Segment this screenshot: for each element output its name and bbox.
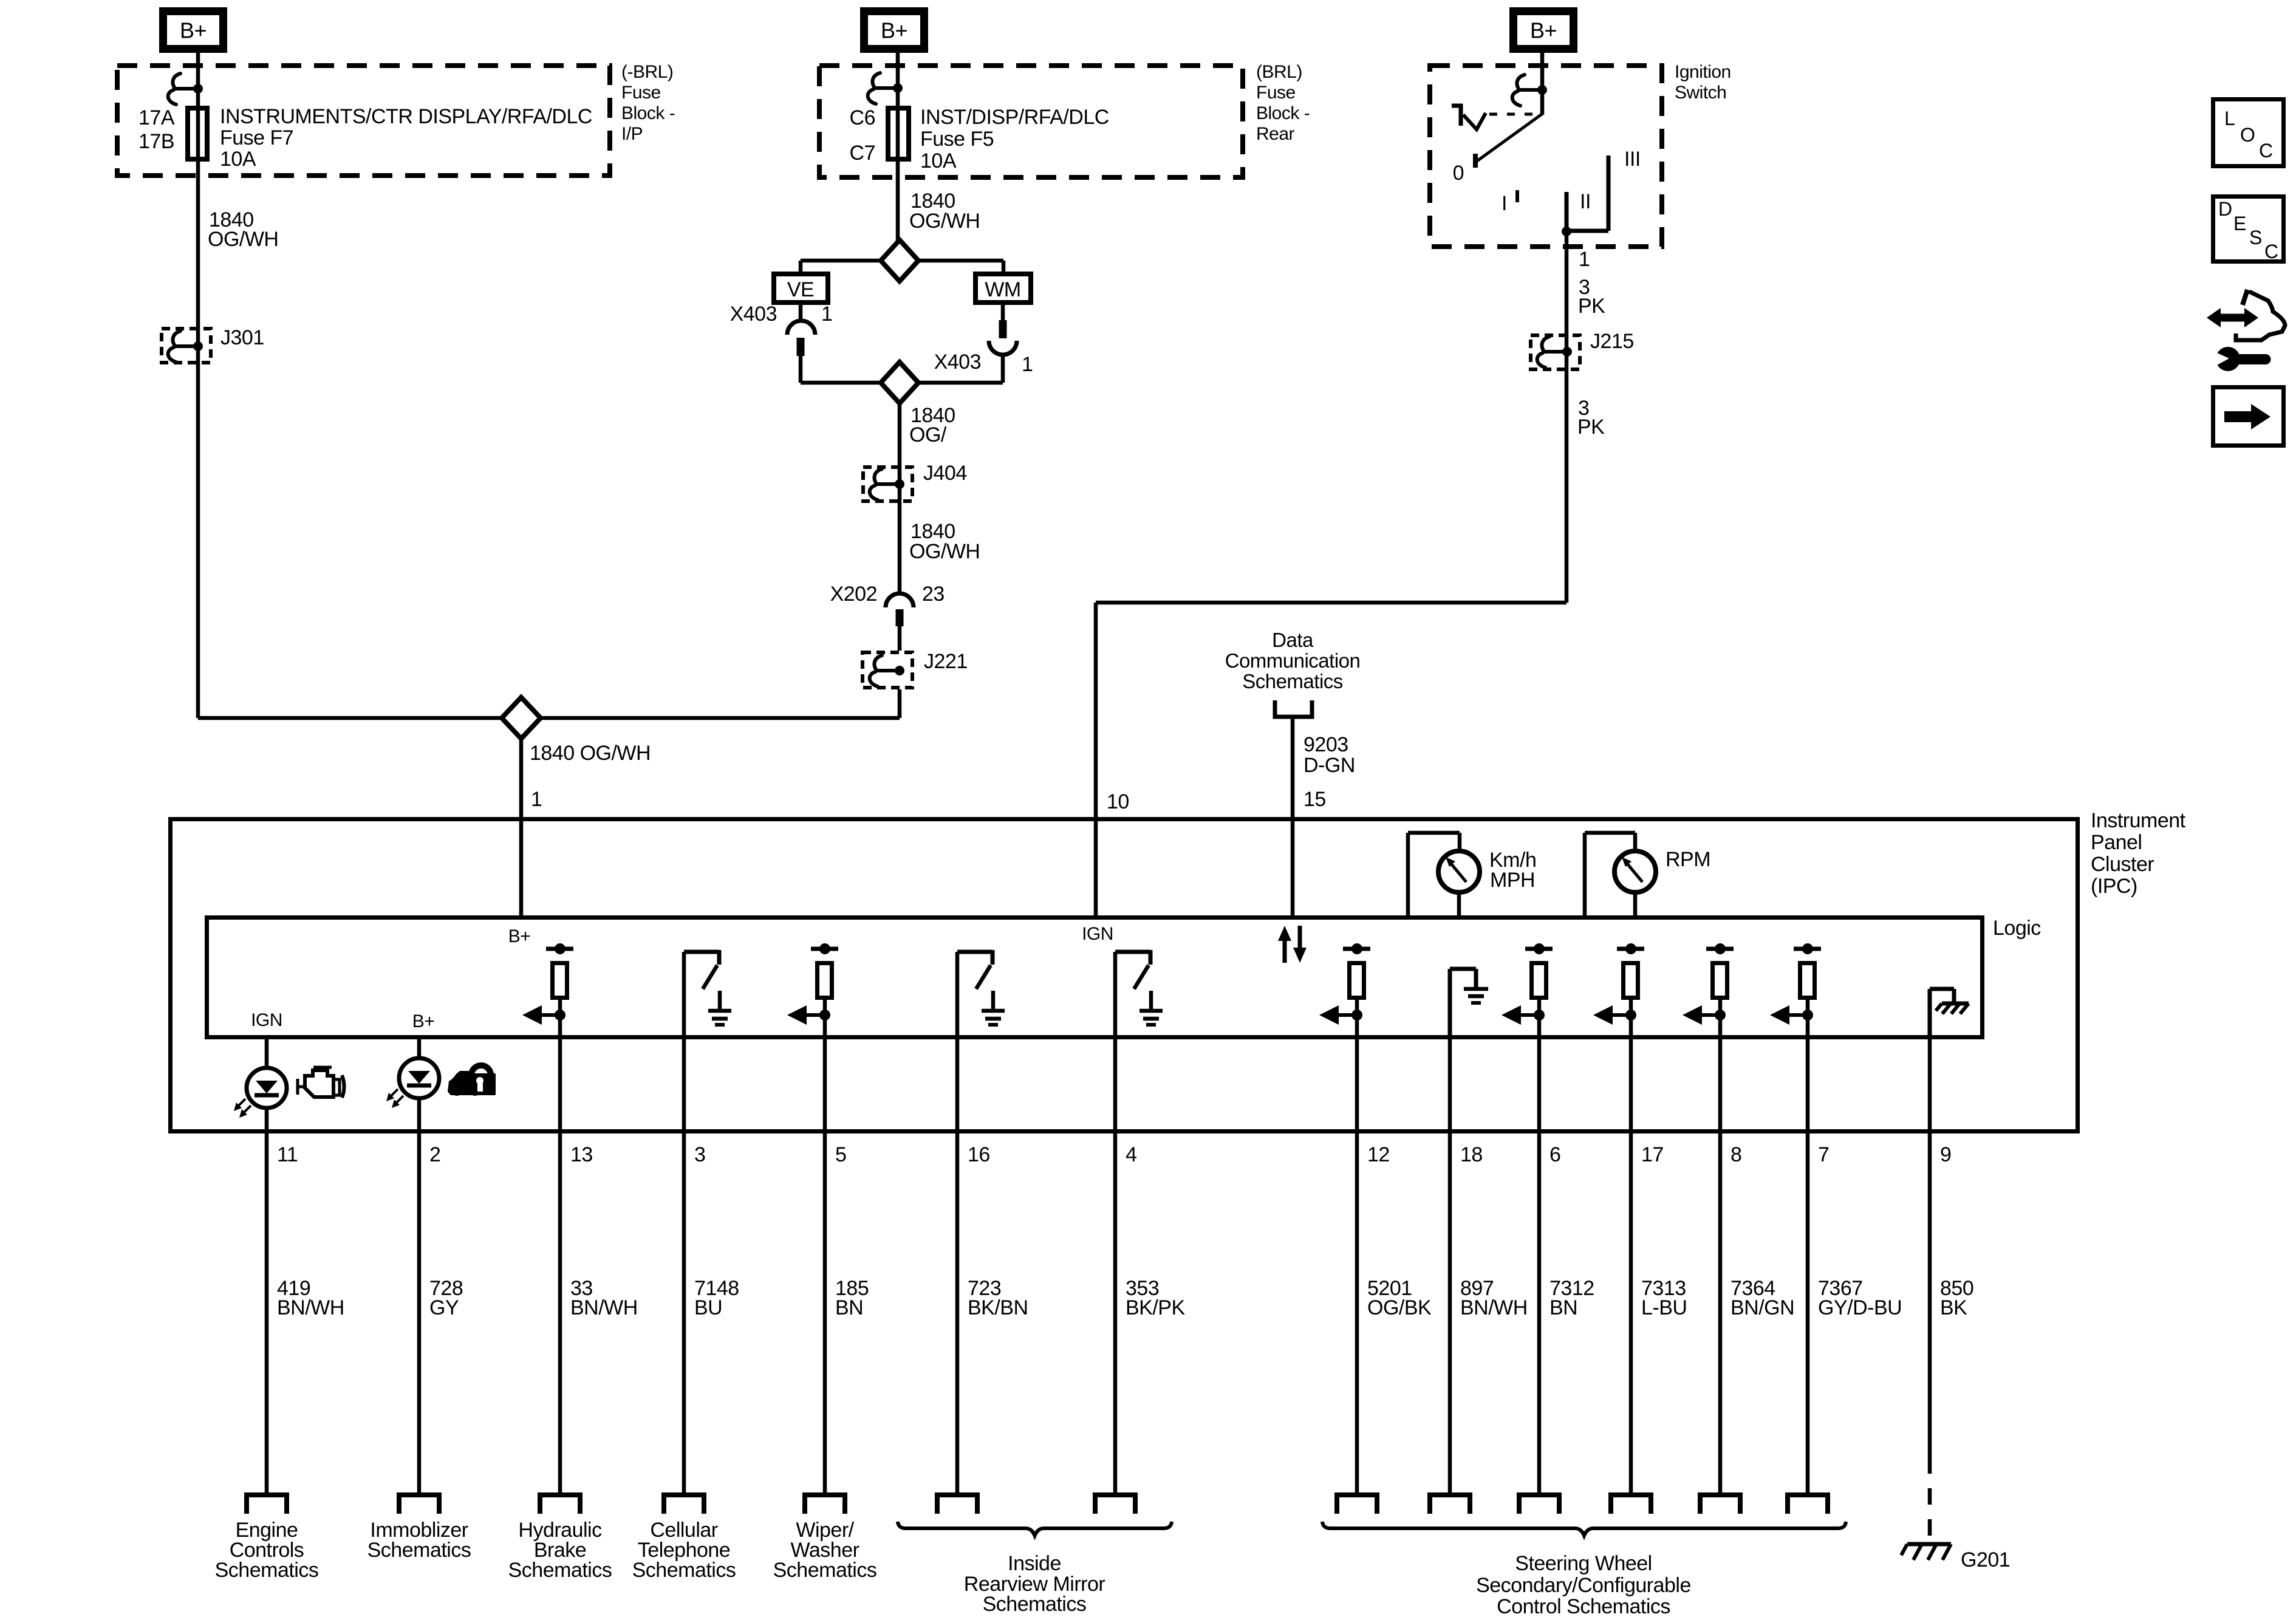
svg-text:(IPC): (IPC) — [2091, 875, 2137, 898]
svg-text:Instrument: Instrument — [2091, 809, 2186, 832]
off-page bracket data comm — [1275, 700, 1312, 717]
svg-text:15: 15 — [1303, 788, 1326, 811]
wire X202 to J221 — [898, 626, 902, 651]
splice diamond main — [502, 697, 541, 739]
ignition switch name — [1675, 62, 1731, 103]
wire label 7367 GY/D-BU — [1818, 1277, 1902, 1319]
brace inside rearview mirror group — [898, 1522, 1172, 1536]
pin 15 label — [1303, 788, 1326, 811]
svg-text:BK/BN: BK/BN — [968, 1296, 1028, 1319]
off-page connector pin 11 — [247, 1495, 287, 1514]
IPC name — [2091, 809, 2186, 898]
pin 13 label — [570, 1143, 593, 1166]
pin 1 label at WM — [1022, 353, 1033, 376]
brace steering wheel group — [1322, 1522, 1846, 1536]
off-page connector pin 2 — [399, 1495, 439, 1514]
svg-text:Fuse: Fuse — [1256, 83, 1296, 103]
wire label 1840 OG/WH — [208, 208, 278, 251]
wire label 33 BN/WH — [570, 1277, 638, 1319]
speedometer gauge Km/h MPH — [1408, 833, 1536, 915]
wire diamond to X202 — [898, 403, 902, 593]
ignition key symbol — [1452, 104, 1537, 129]
svg-text:17B: 17B — [138, 130, 174, 153]
label X403 right — [934, 350, 981, 374]
label X202 — [830, 583, 877, 606]
svg-text:BK: BK — [1940, 1296, 1967, 1319]
off-page connector pin 12 — [1337, 1495, 1377, 1514]
connector X202 — [886, 593, 914, 626]
svg-text:23: 23 — [922, 583, 945, 606]
connector symbol in fuse block I/P — [168, 73, 203, 104]
pin 3 label — [694, 1143, 705, 1166]
pin 7 label — [1818, 1143, 1829, 1166]
wire ignition to J215 — [1565, 233, 1569, 603]
svg-text:(-BRL): (-BRL) — [621, 62, 673, 82]
label Engine Controls Schematics — [215, 1519, 319, 1582]
svg-text:9: 9 — [1940, 1143, 1951, 1166]
splice J215 — [1531, 330, 1634, 369]
svg-text:16: 16 — [968, 1143, 990, 1166]
svg-text:OG/WH: OG/WH — [909, 540, 980, 563]
chassis ground hook pin 9 — [1930, 989, 1969, 1457]
pin 1 label ignition — [1579, 248, 1590, 271]
wire label 7364 BN/GN — [1731, 1277, 1794, 1319]
svg-text:PK: PK — [1577, 415, 1605, 439]
svg-text:13: 13 — [570, 1143, 593, 1166]
svg-text:Switch: Switch — [1675, 83, 1726, 103]
svg-text:D: D — [2218, 198, 2232, 220]
pin label C7 — [850, 142, 875, 165]
position 0 label — [1453, 162, 1464, 185]
position I terminal — [1502, 190, 1517, 215]
wire label 419 BN/WH — [277, 1277, 344, 1319]
svg-text:MPH: MPH — [1490, 869, 1535, 892]
off-page connector pin 13 — [540, 1495, 580, 1514]
svg-text:3: 3 — [694, 1143, 705, 1166]
svg-text:Block -: Block - — [621, 103, 675, 123]
wire label 723 BK/BN — [968, 1277, 1028, 1319]
icon vehicle with arrow — [2207, 290, 2285, 340]
resistor branch pin 5 — [787, 943, 838, 1495]
fuse F5 label — [920, 106, 1109, 173]
svg-text:BN/WH: BN/WH — [570, 1296, 638, 1319]
svg-text:2: 2 — [429, 1143, 440, 1166]
wire ignition to IPC pin 10 — [1096, 603, 1567, 916]
wire label 7312 BN — [1549, 1277, 1594, 1319]
resistor branch pin 6 — [1502, 943, 1553, 1495]
off-page connector pin 18 — [1430, 1495, 1470, 1514]
off-page label Data Communication Schematics — [1225, 629, 1361, 692]
svg-text:1: 1 — [531, 788, 542, 811]
svg-text:Cluster: Cluster — [2091, 853, 2154, 876]
svg-text:1: 1 — [1022, 353, 1033, 376]
IPC outer box — [171, 819, 2078, 1132]
svg-text:10A: 10A — [920, 149, 957, 173]
pin label C6 — [850, 106, 875, 129]
resistor branch pin 7 — [1770, 943, 1821, 1495]
wire B+ to fuse block I/P — [196, 53, 200, 106]
svg-text:Data: Data — [1272, 629, 1314, 651]
svg-text:Rear: Rear — [1256, 124, 1295, 144]
svg-text:1: 1 — [821, 303, 832, 326]
svg-text:J301: J301 — [220, 326, 264, 349]
wire B+ to fuse block rear — [896, 51, 900, 106]
off-page connector pin 4 — [1095, 1495, 1135, 1514]
svg-text:C: C — [2264, 241, 2278, 262]
splice diamond lower — [881, 362, 918, 403]
svg-text:BN/WH: BN/WH — [1460, 1296, 1528, 1319]
svg-text:(BRL): (BRL) — [1256, 62, 1302, 82]
svg-text:J221: J221 — [924, 650, 968, 673]
wire J221 to splice diamond main — [541, 689, 900, 718]
svg-text:1: 1 — [1579, 248, 1590, 271]
svg-text:11: 11 — [277, 1143, 298, 1166]
svg-text:7: 7 — [1818, 1143, 1829, 1166]
svg-text:INST/DISP/RFA/DLC: INST/DISP/RFA/DLC — [920, 106, 1109, 129]
svg-text:4: 4 — [1126, 1143, 1136, 1166]
svg-text:J404: J404 — [923, 462, 967, 485]
svg-text:6: 6 — [1549, 1143, 1560, 1166]
svg-text:D-GN: D-GN — [1303, 754, 1355, 777]
wire label 3 PK upper — [1578, 276, 1605, 318]
wire fuse F5 to splice diamond — [896, 162, 900, 241]
ground hook pin 18 — [1450, 969, 1488, 1495]
position III terminal — [1567, 148, 1641, 231]
node II junction — [1562, 227, 1571, 236]
svg-text:B+: B+ — [1530, 18, 1557, 43]
svg-text:Schematics: Schematics — [508, 1559, 612, 1582]
icon box DESC — [2213, 197, 2284, 263]
off-page connector pin 6 — [1519, 1495, 1559, 1514]
svg-text:Inside: Inside — [1008, 1552, 1061, 1575]
connector symbol in fuse block rear — [868, 73, 903, 104]
splice J221 — [863, 650, 968, 688]
pin 12 label — [1367, 1143, 1390, 1166]
svg-text:Control Schematics: Control Schematics — [1497, 1595, 1670, 1617]
svg-text:0: 0 — [1453, 162, 1464, 185]
svg-text:Schematics: Schematics — [215, 1559, 319, 1582]
svg-text:1840 OG/WH: 1840 OG/WH — [530, 742, 651, 765]
connector VE box — [774, 274, 828, 303]
logic label — [1993, 917, 2041, 940]
svg-text:Ignition: Ignition — [1675, 62, 1731, 82]
wire B+ to ignition switch — [1540, 53, 1545, 114]
wire label 897 BN/WH — [1460, 1277, 1528, 1319]
label Immoblizer Schematics — [367, 1519, 471, 1562]
ignition switch blade — [1475, 113, 1543, 168]
icon wrench — [2212, 347, 2271, 371]
wire diamond to IPC pin 1 — [519, 739, 524, 916]
power symbol B+ (left feed) — [163, 12, 224, 49]
wire diamond to WM — [918, 261, 1003, 273]
svg-text:GY/D-BU: GY/D-BU — [1818, 1296, 1902, 1319]
LED indicator pin 2 (B+) — [386, 1011, 439, 1495]
svg-text:9203: 9203 — [1303, 733, 1348, 756]
svg-text:OG/: OG/ — [909, 423, 947, 446]
svg-text:Schematics: Schematics — [1242, 670, 1343, 692]
svg-text:Logic: Logic — [1993, 917, 2041, 940]
svg-text:X403: X403 — [934, 350, 981, 374]
pin 4 label — [1126, 1143, 1136, 1166]
wire label 185 BN — [835, 1277, 869, 1319]
svg-text:12: 12 — [1367, 1143, 1390, 1166]
svg-text:S: S — [2249, 227, 2262, 248]
wire label 1840 OG/WH lower — [909, 520, 980, 563]
svg-text:Block -: Block - — [1256, 103, 1310, 123]
off-page connector pin 5 — [805, 1495, 845, 1514]
svg-text:B+: B+ — [508, 926, 531, 946]
connector X403 at VE — [787, 321, 815, 356]
svg-text:B+: B+ — [412, 1011, 435, 1031]
wire label 3 PK lower — [1577, 397, 1605, 439]
tachometer gauge RPM — [1585, 833, 1710, 915]
fuse block rear dashed box — [819, 66, 1243, 177]
svg-text:PK: PK — [1578, 295, 1605, 318]
svg-text:OG/BK: OG/BK — [1367, 1296, 1432, 1319]
pin 18 label — [1460, 1143, 1483, 1166]
splice J404 — [863, 462, 967, 501]
icon box LOC — [2213, 100, 2284, 166]
fuse block I/P dashed box — [117, 66, 610, 176]
svg-text:17A: 17A — [138, 106, 175, 129]
connector symbol in ignition switch — [1512, 75, 1547, 106]
svg-text:WM: WM — [985, 278, 1020, 301]
fuse F5 — [888, 108, 909, 159]
svg-text:Fuse F7: Fuse F7 — [220, 126, 293, 149]
node IGN entry — [1082, 924, 1113, 944]
svg-text:OG/WH: OG/WH — [909, 210, 980, 233]
svg-text:5: 5 — [835, 1143, 846, 1166]
engine icon — [298, 1067, 344, 1098]
resistor branch pin 12 — [1319, 943, 1370, 1495]
svg-text:Schematics: Schematics — [773, 1559, 877, 1582]
wire 9203 D-GN — [1291, 717, 1295, 916]
pin 1 label at VE — [821, 303, 832, 326]
svg-text:J215: J215 — [1590, 330, 1634, 353]
pin 9 label — [1940, 1143, 1951, 1166]
svg-text:I: I — [1502, 192, 1507, 215]
wire 1840 OG/WH left — [196, 162, 200, 718]
svg-text:Fuse F5: Fuse F5 — [920, 128, 994, 151]
car with lock icon — [448, 1065, 496, 1096]
svg-text:C: C — [2259, 140, 2273, 162]
wire VE down — [799, 305, 803, 321]
pin label 17A — [138, 106, 175, 129]
off-page connector pin 3 — [664, 1495, 704, 1514]
svg-text:E: E — [2233, 213, 2246, 234]
fuse F7 — [188, 108, 207, 159]
svg-text:X202: X202 — [830, 583, 877, 606]
switch to ground pin 4 — [1115, 950, 1163, 1495]
svg-text:BN: BN — [1549, 1296, 1577, 1319]
pin 11 label — [277, 1143, 298, 1166]
LED indicator pin 11 (IGN) — [234, 1010, 287, 1495]
svg-text:L: L — [2224, 108, 2235, 129]
svg-text:O: O — [2240, 124, 2255, 146]
wire label 728 GY — [429, 1277, 463, 1319]
svg-text:BU: BU — [694, 1296, 722, 1319]
svg-text:B+: B+ — [881, 18, 907, 43]
connector X403 at WM — [989, 320, 1017, 355]
wire label 850 BK — [1940, 1277, 1973, 1319]
position II terminal — [1567, 190, 1591, 233]
wire WM down — [1001, 305, 1005, 321]
data arrows up-down — [1278, 926, 1307, 963]
wire diamond to VE — [801, 261, 881, 273]
pin 8 label — [1731, 1143, 1741, 1166]
svg-text:X403: X403 — [730, 303, 777, 326]
pin 17 label — [1641, 1143, 1664, 1166]
ignition switch dashed box — [1430, 66, 1662, 247]
off-page connector pin 8 — [1700, 1495, 1740, 1514]
label Hydraulic Brake Schematics — [508, 1519, 612, 1582]
off-page connector pin 16 — [937, 1495, 977, 1514]
wire label 7148 BU — [694, 1277, 739, 1319]
svg-text:10A: 10A — [220, 148, 256, 171]
svg-text:BN/WH: BN/WH — [277, 1296, 344, 1319]
svg-text:17: 17 — [1641, 1143, 1664, 1166]
pin label 17B — [138, 130, 174, 153]
wire label 1840 OG/WH at diamond — [530, 742, 651, 765]
svg-text:BN/GN: BN/GN — [1731, 1296, 1794, 1319]
wire label 5201 OG/BK — [1367, 1277, 1432, 1319]
svg-text:Secondary/Configurable: Secondary/Configurable — [1476, 1574, 1691, 1597]
svg-text:L-BU: L-BU — [1641, 1296, 1687, 1319]
svg-text:G201: G201 — [1961, 1548, 2010, 1571]
wire label 9203 D-GN — [1303, 733, 1355, 777]
svg-text:IGN: IGN — [251, 1010, 282, 1030]
svg-text:OG/WH: OG/WH — [208, 228, 278, 251]
wire left feed to diamond — [198, 716, 502, 720]
wire VE to lower diamond — [801, 356, 881, 383]
svg-text:B+: B+ — [180, 18, 207, 43]
ground G201 — [1901, 1544, 2010, 1571]
svg-text:10: 10 — [1107, 790, 1129, 813]
svg-text:Panel: Panel — [2091, 831, 2142, 854]
svg-text:GY: GY — [429, 1296, 459, 1319]
svg-text:Schematics: Schematics — [367, 1539, 471, 1562]
svg-text:Schematics: Schematics — [632, 1559, 736, 1582]
pin 5 label — [835, 1143, 846, 1166]
svg-text:8: 8 — [1731, 1143, 1741, 1166]
resistor branch pin 13 — [522, 943, 573, 1495]
fuse block I/P name — [621, 62, 675, 144]
fuse block rear name — [1256, 62, 1310, 144]
wire label 7313 L-BU — [1641, 1277, 1687, 1319]
svg-text:RPM: RPM — [1666, 848, 1710, 871]
svg-text:BN: BN — [835, 1296, 863, 1319]
svg-text:18: 18 — [1460, 1143, 1483, 1166]
wire label 353 BK/PK — [1126, 1277, 1185, 1319]
connector WM box — [975, 274, 1031, 303]
wire label 1840 OG/ — [909, 404, 955, 446]
label Steering Wheel Control Schematics — [1476, 1552, 1691, 1617]
switch to ground pin 3 — [684, 950, 731, 1495]
svg-text:Steering Wheel: Steering Wheel — [1515, 1552, 1652, 1575]
svg-text:Schematics: Schematics — [983, 1593, 1087, 1616]
dashed wire to G201 — [1928, 1457, 1932, 1539]
logic box — [207, 918, 1983, 1038]
resistor branch pin 8 — [1683, 943, 1734, 1495]
switch to ground pin 16 — [957, 950, 1005, 1495]
label X403 left — [730, 303, 777, 326]
pin 10 label — [1107, 790, 1129, 813]
fuse F7 label — [220, 105, 592, 171]
pin 1 label — [531, 788, 542, 811]
power symbol B+ (ignition) — [1514, 12, 1574, 49]
pin 23 label — [922, 583, 945, 606]
pin 6 label — [1549, 1143, 1560, 1166]
node B+ entry — [508, 926, 531, 946]
svg-text:I/P: I/P — [621, 124, 643, 144]
wire label 1840 OG/WH mid — [909, 190, 980, 233]
svg-text:II: II — [1580, 190, 1591, 213]
svg-text:III: III — [1624, 148, 1641, 171]
svg-text:VE: VE — [787, 278, 814, 301]
wire WM to lower diamond — [918, 355, 1003, 383]
svg-text:BK/PK: BK/PK — [1126, 1296, 1185, 1319]
label Cellular Telephone Schematics — [632, 1519, 736, 1582]
splice J301 — [162, 326, 264, 363]
off-page connector pin 7 — [1788, 1495, 1828, 1514]
svg-text:INSTRUMENTS/CTR DISPLAY/RFA/DL: INSTRUMENTS/CTR DISPLAY/RFA/DLC — [220, 105, 592, 128]
splice diamond upper — [881, 240, 918, 281]
resistor branch pin 17 — [1593, 943, 1644, 1495]
svg-text:Fuse: Fuse — [621, 83, 661, 103]
off-page connector pin 17 — [1611, 1495, 1651, 1514]
svg-text:Communication: Communication — [1225, 649, 1361, 672]
svg-text:C6: C6 — [850, 106, 875, 129]
pin 2 label — [429, 1143, 440, 1166]
label Inside Rearview Mirror Schematics — [964, 1552, 1105, 1616]
svg-text:IGN: IGN — [1082, 924, 1113, 944]
pin 16 label — [968, 1143, 990, 1166]
svg-text:C7: C7 — [850, 142, 875, 165]
power symbol B+ (rear feed) — [864, 12, 924, 49]
label Wiper Washer Schematics — [773, 1519, 877, 1582]
icon box arrow — [2213, 388, 2284, 446]
